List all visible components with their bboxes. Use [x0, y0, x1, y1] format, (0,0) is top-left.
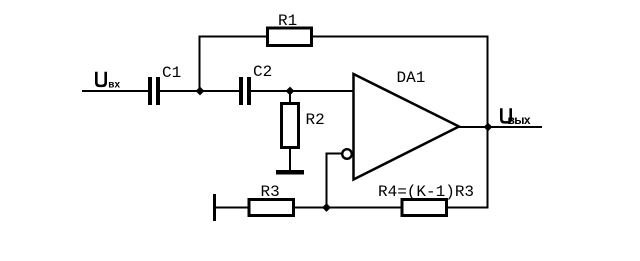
svg-text:R1: R1 — [278, 12, 297, 30]
svg-text:R3: R3 — [261, 183, 280, 201]
svg-text:DA1: DA1 — [397, 69, 426, 87]
svg-text:C1: C1 — [162, 64, 181, 82]
svg-text:вх: вх — [108, 80, 120, 91]
svg-text:R2: R2 — [306, 111, 325, 129]
svg-text:C2: C2 — [253, 63, 272, 81]
svg-text:R4=(K-1)R3: R4=(K-1)R3 — [378, 183, 474, 201]
